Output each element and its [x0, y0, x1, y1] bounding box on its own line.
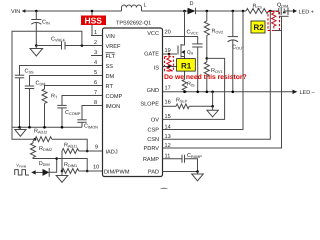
- inductor L: [122, 5, 142, 11]
- svg-text:IADJ: IADJ: [106, 150, 118, 156]
- capacitor C_VCC: [192, 43, 202, 45]
- node SLOPE gnd junction: [211, 105, 214, 108]
- svg-text:VIN: VIN: [11, 9, 20, 15]
- cropped copyright glyph fragment: [160, 188, 169, 192]
- LED+ output arrow: [293, 9, 297, 13]
- node OV divider junction: [206, 57, 209, 60]
- wire HSS to pin 1 VIN: [92, 25, 103, 36]
- svg-text:Do we need this resistor?: Do we need this resistor?: [164, 74, 247, 81]
- capacitor C_SS: [15, 74, 24, 76]
- svg-text:IMON: IMON: [106, 104, 121, 110]
- resistor R_OV2: [206, 11, 208, 21]
- svg-text:R1: R1: [181, 61, 192, 70]
- svg-text:CSN: CSN: [147, 137, 159, 143]
- svg-text:4: 4: [94, 60, 97, 66]
- wire VREF net with C_VREF: [36, 45, 61, 47]
- capacitor C_RAMP: [181, 155, 183, 163]
- resistor R2 highlighted (Q_DIM gate pullup): [272, 11, 276, 29]
- wire pin6 RT to R_T: [45, 86, 103, 90]
- svg-text:PDRV: PDRV: [144, 146, 160, 152]
- node switch junction: [183, 10, 186, 13]
- node Q_M source junction: [183, 65, 186, 68]
- wire pin9 IADJ stub: [87, 150, 102, 152]
- node CSP tap junction: [242, 10, 245, 13]
- svg-text:R2: R2: [254, 23, 265, 32]
- svg-text:7: 7: [94, 90, 97, 96]
- resistor R_T: [42, 89, 47, 103]
- svg-text:DIM/PWM: DIM/PWM: [104, 169, 130, 176]
- capacitor C_VREF: [61, 42, 63, 50]
- svg-text:8: 8: [94, 100, 97, 106]
- svg-text:CSP: CSP: [147, 128, 159, 134]
- wire pin7 COMP to C_COMP: [62, 96, 103, 106]
- square wave symbol: [15, 170, 29, 175]
- wire SLOPE ground riser: [212, 92, 214, 107]
- svg-text:9: 9: [95, 145, 98, 151]
- svg-text:SLOPE: SLOPE: [140, 102, 159, 108]
- node R_DIM1 left junction: [61, 170, 64, 173]
- wire D_DIM cathode up to pin10 loop: [49, 159, 56, 173]
- wire pin19 GATE to Q_M gate: [163, 53, 178, 55]
- resistor R_IS: [184, 67, 186, 80]
- svg-text:GND: GND: [147, 88, 159, 94]
- svg-text:SS: SS: [106, 64, 114, 70]
- svg-text:TPS92692-Q1: TPS92692-Q1: [116, 21, 151, 27]
- ground C_RAMP: [192, 172, 204, 181]
- node C_IN rail junction: [35, 10, 38, 13]
- svg-text:GATE: GATE: [144, 52, 159, 58]
- wire pin5 DM to C_DM: [30, 76, 103, 87]
- transistor Q_M: [178, 11, 194, 67]
- wire rail from L to diode: [142, 10, 188, 12]
- resistor R_CS: [246, 9, 268, 14]
- wire left ground bus: [12, 126, 82, 128]
- node CSN / Q_DIM source junction: [269, 10, 272, 13]
- wire PAD to ground: [163, 171, 198, 173]
- resistor R_ADJ1: [62, 149, 79, 154]
- capacitor C_IMON: [77, 119, 86, 121]
- svg-text:D: D: [190, 1, 194, 7]
- svg-text:10: 10: [93, 165, 99, 171]
- svg-text:COMP: COMP: [106, 94, 123, 100]
- highlight box around R2 resistor: [268, 12, 280, 31]
- wire VIN rail top: [25, 10, 121, 12]
- svg-text:LED +: LED +: [299, 10, 314, 16]
- node C_IN / VREF wire junction: [35, 44, 38, 47]
- LED- return arrow: [293, 90, 298, 94]
- svg-text:6: 6: [94, 80, 97, 86]
- wire HSS riser to VIN rail: [91, 11, 93, 16]
- resistor R_OV1: [206, 58, 208, 62]
- node gate resistor junction: [168, 53, 171, 56]
- capacitor C_OUT: [232, 11, 234, 37]
- wire pin11 RAMP to C_RAMP: [163, 158, 183, 160]
- node C_OUT top junction: [232, 10, 235, 13]
- node HSS rail junction: [91, 10, 94, 13]
- capacitor C_IN: [31, 11, 50, 46]
- svg-text:RAMP: RAMP: [143, 157, 159, 163]
- resistor R_DIM1: [62, 169, 79, 174]
- svg-text:VIN: VIN: [106, 34, 115, 40]
- resistor R_DIM2: [31, 139, 36, 157]
- node D_DIM loop junction: [55, 157, 58, 160]
- yellow label box R2: [251, 21, 265, 33]
- svg-text:LED –: LED –: [300, 90, 316, 96]
- svg-text:FLT: FLT: [106, 54, 116, 60]
- svg-text:16: 16: [165, 99, 171, 105]
- svg-text:VPWM: VPWM: [16, 163, 27, 169]
- transistor Q_DIM: [163, 3, 294, 149]
- wire pin10 DIM/PWM stub: [79, 170, 103, 172]
- IC U1 TPS92692-Q1 body: [103, 28, 163, 177]
- ground below C_IN junction: [30, 46, 43, 57]
- capacitor C_DM: [25, 85, 34, 87]
- node pin9 junction: [86, 150, 89, 153]
- yellow label box R1: [177, 59, 196, 72]
- wire pin8 IMON to C_IMON: [82, 106, 103, 120]
- arrow from V_PWM: [31, 170, 36, 174]
- wire CSP loop pin14: [163, 11, 244, 130]
- svg-text:DM: DM: [106, 74, 115, 80]
- diode D: [188, 8, 196, 14]
- wire CSN loop pin13: [163, 11, 271, 139]
- svg-text:RT: RT: [106, 84, 114, 90]
- svg-text:5: 5: [94, 70, 97, 76]
- svg-text:VCC: VCC: [147, 31, 159, 37]
- wire R2 bottom to gate net: [274, 30, 282, 32]
- svg-text:OV: OV: [151, 117, 159, 123]
- wire R_ADJ2 to pin9 loop: [52, 139, 87, 151]
- wire GND bus right: [163, 91, 293, 93]
- VIN input arrow: [22, 9, 26, 13]
- node bus junctions: [18, 126, 21, 129]
- wire R_ADJ1 left to D_DIM junction: [61, 151, 63, 171]
- node VREF loop junction: [81, 44, 84, 47]
- wire pin20 VCC to C_VCC: [163, 37, 198, 44]
- wire VREF loop down left side to R_ADJ2: [12, 31, 82, 139]
- svg-text:VREF: VREF: [106, 44, 122, 50]
- svg-text:QM: QM: [187, 50, 194, 56]
- svg-text:17: 17: [165, 86, 171, 92]
- resistor R_ADJ2: [34, 138, 37, 141]
- capacitor C_COMP: [57, 104, 66, 106]
- wire pin4 SS to C_SS: [20, 66, 103, 76]
- svg-text:L: L: [144, 3, 147, 9]
- HSS red box: [81, 16, 106, 26]
- wire pin10 loop: [57, 159, 87, 172]
- node R1 bottom junction: [168, 65, 171, 68]
- ground left bus: [15, 127, 26, 136]
- diode D_DIM: [43, 169, 50, 176]
- ground right bus: [207, 106, 218, 117]
- node R_OV2 top junction: [206, 10, 209, 13]
- svg-text:HSS: HSS: [85, 16, 103, 26]
- highlight box around R1 resistor: [165, 57, 174, 71]
- resistor R_SLP on SLOPE pin16: [163, 105, 177, 107]
- resistor R1 highlighted (gate pulldown): [167, 54, 171, 71]
- svg-text:PAD: PAD: [148, 170, 159, 176]
- wire OV tap to pin15: [163, 58, 225, 119]
- node GND bus junctions: [183, 91, 186, 94]
- node PAD gnd junction: [196, 170, 199, 173]
- svg-text:20: 20: [165, 30, 171, 36]
- node R_DIM1 right junction: [86, 170, 89, 173]
- svg-text:IS: IS: [154, 66, 160, 72]
- wire pin18 IS: [163, 66, 185, 68]
- wire rail from diode to Q_DIM: [196, 10, 247, 12]
- ground below D_DIM junction: [56, 171, 68, 182]
